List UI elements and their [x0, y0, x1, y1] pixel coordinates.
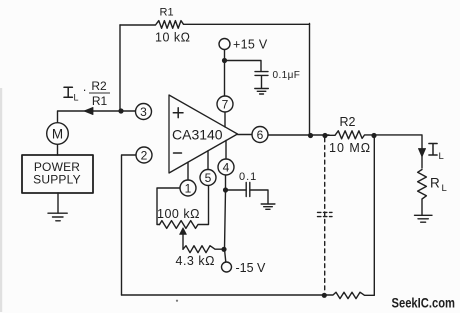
svg-text:1: 1: [185, 181, 192, 195]
svg-text:·: ·: [83, 83, 87, 97]
svg-text:10 kΩ: 10 kΩ: [155, 30, 190, 44]
svg-text:+15 V: +15 V: [233, 37, 268, 51]
svg-text:R1: R1: [92, 94, 108, 108]
svg-text:0.1μF: 0.1μF: [273, 70, 301, 81]
svg-text:SUPPLY: SUPPLY: [33, 173, 81, 187]
svg-text:4.3 kΩ: 4.3 kΩ: [176, 254, 215, 268]
svg-text:10 MΩ: 10 MΩ: [329, 141, 371, 155]
svg-text:7: 7: [222, 97, 229, 111]
svg-text:6: 6: [257, 128, 264, 142]
svg-text:R2: R2: [340, 115, 356, 129]
svg-text:R2: R2: [91, 79, 107, 93]
svg-text:2: 2: [141, 148, 148, 162]
svg-text:M: M: [52, 126, 63, 141]
svg-text:0.1: 0.1: [239, 171, 257, 183]
svg-text:L: L: [439, 151, 444, 162]
svg-text:SeekIC.com: SeekIC.com: [392, 296, 456, 311]
svg-text:L: L: [442, 183, 447, 194]
svg-text:100 kΩ: 100 kΩ: [157, 207, 200, 221]
svg-text:CA3140: CA3140: [172, 127, 223, 143]
svg-text:3: 3: [140, 105, 147, 119]
svg-text:4: 4: [223, 160, 230, 174]
svg-text:-15 V: -15 V: [236, 261, 267, 275]
svg-text:L: L: [74, 93, 79, 103]
svg-text:R1: R1: [160, 6, 174, 18]
svg-text:R: R: [430, 176, 440, 191]
svg-text:5: 5: [205, 171, 212, 185]
